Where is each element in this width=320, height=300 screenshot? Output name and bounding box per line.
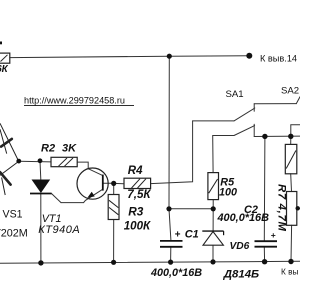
svg-text:КТ940А: КТ940А — [38, 224, 80, 236]
svg-text:3K: 3K — [62, 143, 77, 155]
svg-text:VD6: VD6 — [230, 241, 250, 252]
svg-text:+: + — [175, 230, 181, 241]
svg-text:100: 100 — [219, 186, 237, 198]
svg-text:http://www.299792458.ru: http://www.299792458.ru — [24, 96, 125, 106]
svg-text:Д814Б: Д814Б — [223, 268, 259, 280]
svg-text:R3: R3 — [128, 204, 144, 218]
svg-text:400,0*16В: 400,0*16В — [217, 212, 270, 224]
svg-text:6К: 6К — [0, 64, 9, 75]
svg-text:К выв.14: К выв.14 — [260, 53, 297, 63]
svg-text:R7 4,7М: R7 4,7М — [276, 184, 288, 232]
svg-text:400,0*16В: 400,0*16В — [150, 267, 202, 279]
svg-text:SA1: SA1 — [226, 89, 244, 100]
svg-text:VT1: VT1 — [42, 213, 62, 225]
svg-text:R2: R2 — [41, 143, 55, 155]
svg-text:R4: R4 — [128, 165, 143, 177]
svg-text:100К: 100К — [124, 220, 151, 233]
svg-text:К вы: К вы — [281, 266, 299, 276]
svg-text:SA2: SA2 — [281, 86, 299, 97]
svg-text:VS1: VS1 — [3, 208, 23, 220]
svg-text:+: + — [271, 230, 276, 240]
svg-text:C1: C1 — [185, 229, 199, 241]
svg-text:7,5К: 7,5К — [127, 188, 151, 201]
svg-text:КУ202М: КУ202М — [0, 227, 28, 239]
